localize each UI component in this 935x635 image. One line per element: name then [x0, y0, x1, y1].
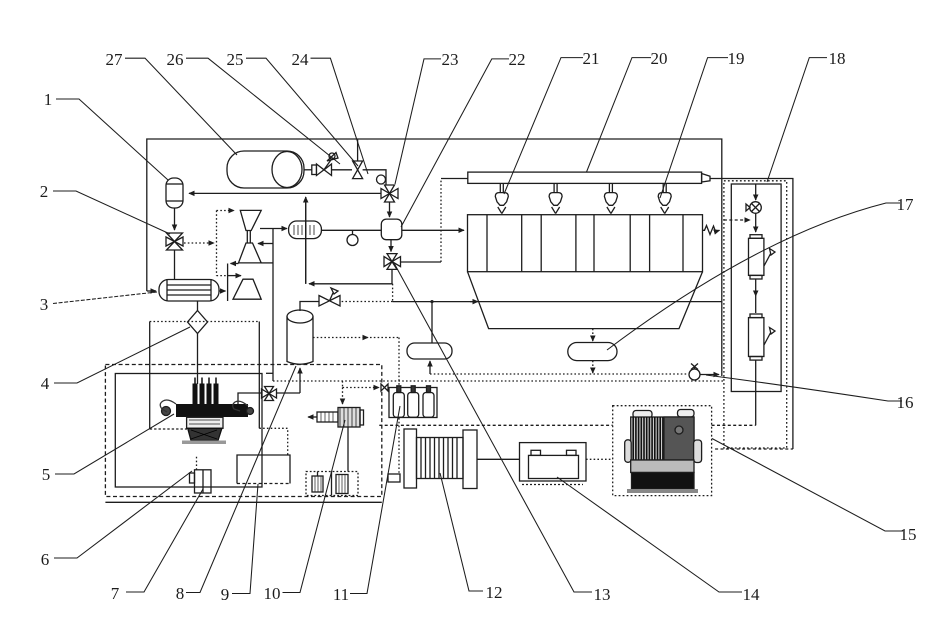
label 8 — [186, 366, 296, 593]
svg-text:27: 27 — [106, 50, 124, 69]
wire: engine jacket line to tank 8 — [234, 411, 239, 413]
svg-text:24: 24 — [292, 50, 310, 69]
lower multiway valve 23b — [384, 254, 401, 270]
multiway valve 23 — [381, 185, 398, 202]
label 12 — [440, 473, 483, 591]
buffer vessel 22 — [381, 219, 402, 240]
label 27 — [125, 58, 237, 155]
waste heat boiler coil — [289, 221, 322, 239]
dotted header D2 y=381 — [273, 380, 724, 382]
engine 5 — [160, 378, 253, 445]
wire: valve 23 down into vessel 22 — [389, 202, 391, 217]
svg-text:18: 18 — [829, 49, 846, 68]
turbine T2 — [239, 243, 262, 263]
label 13 — [394, 263, 592, 592]
wire: valve 23b bottom to condensate header — [391, 269, 393, 283]
label 4 — [54, 327, 190, 383]
engine inner box — [115, 374, 262, 488]
svg-text:13: 13 — [594, 585, 611, 604]
label 9 — [232, 484, 258, 594]
wire: T2 out right, down to engine level — [261, 262, 273, 264]
nozzle 21a — [495, 183, 508, 213]
generator enclosure 15 — [613, 406, 712, 496]
vessel 1 — [166, 178, 183, 208]
hopper under chamber — [468, 272, 703, 329]
wire: tank 8 dotted gas line right then down to bottles — [313, 337, 368, 339]
wire: valve 16 outlet — [700, 374, 719, 376]
svg-text:26: 26 — [167, 50, 184, 69]
wire: condensate header y=283.8 back to WHB riser — [309, 283, 393, 285]
wire: down into fan — [755, 184, 757, 200]
svg-text:1: 1 — [44, 90, 53, 109]
svg-text:6: 6 — [41, 550, 50, 569]
small valve at bottle rack inlet — [381, 384, 388, 391]
svg-text:4: 4 — [41, 374, 50, 393]
label 21 — [504, 58, 583, 194]
label 26 — [186, 58, 340, 164]
wire: radiator to battery — [477, 458, 520, 460]
wire: turbine T2 exhaust to left header — [231, 263, 239, 265]
wire: pipe 20 right end over to generator bus — [710, 179, 793, 450]
wire: gas inlet into chamber — [402, 229, 464, 231]
wire: flue feed arrow into fan column — [724, 219, 750, 221]
wire: hopper to drum 17 dotted — [592, 329, 594, 341]
dotted intake box around diamond 4 — [150, 321, 260, 323]
valve 16 — [689, 364, 700, 381]
wire: drum 17 down to dotted header — [592, 361, 594, 373]
svg-text:3: 3 — [40, 295, 49, 314]
svg-text:14: 14 — [743, 585, 761, 604]
label 3 — [53, 292, 157, 304]
wire: line y=193.4 from valve 23 to vessel 1 — [189, 192, 381, 194]
flue-gas treatment inner box — [731, 184, 781, 392]
svg-text:16: 16 — [897, 393, 914, 412]
svg-text:9: 9 — [221, 585, 230, 604]
svg-text:15: 15 — [900, 525, 917, 544]
wire: valve2 to HX3 — [174, 250, 176, 280]
battery 13 — [520, 443, 587, 485]
injector pump 10 — [308, 408, 364, 472]
dashed generator bus y=449 — [715, 448, 793, 450]
label 7 — [126, 489, 203, 592]
storage tank 26 — [227, 151, 312, 188]
label 14 — [557, 477, 742, 592]
wire: to corner and down to valve 23 — [363, 170, 386, 185]
svg-text:7: 7 — [111, 584, 120, 603]
wire: turbine outlet line to waste heat boiler — [260, 228, 287, 230]
nozzle 21c — [604, 183, 617, 213]
gas bottle rack 11 — [389, 386, 437, 418]
label 1 — [56, 99, 168, 180]
wire: riser through WHB — [305, 197, 307, 284]
wire: fuel dotted from header to injector and bottles — [342, 381, 344, 388]
wire: vessel 22 down to valve 23b — [390, 240, 392, 252]
svg-text:12: 12 — [486, 583, 503, 602]
chamber outlet zigzag to right channel — [703, 226, 720, 235]
generator 14 — [625, 410, 702, 494]
relief valve above tank 8 — [319, 288, 340, 306]
wire: valve 23b right, up, into spray pipe 20 — [401, 261, 442, 263]
label 16 — [706, 375, 902, 401]
engine room solid floor — [105, 501, 381, 503]
control box 9 — [237, 455, 290, 484]
branch valve 24 with stub to box top — [353, 139, 363, 179]
turbine T3 — [233, 279, 261, 299]
induced draft fan — [746, 202, 761, 214]
outer enclosure box — [147, 139, 722, 376]
flue-gas treatment outer dotted box 18 — [724, 181, 787, 448]
svg-text:25: 25 — [227, 50, 244, 69]
small drum (left, above bottles) — [407, 343, 452, 359]
wire: valve2 dotted branch to turbine T1 inlet — [184, 242, 214, 244]
wire: header into turbine T3 — [228, 275, 241, 277]
svg-text:11: 11 — [333, 585, 349, 604]
label 22 — [401, 59, 509, 227]
label 18 — [767, 58, 827, 182]
filter column 16a — [749, 314, 776, 360]
label 24 — [311, 58, 369, 174]
label 20 — [587, 58, 652, 172]
filter column 17a — [749, 235, 776, 279]
diamond separator 4 — [197, 301, 199, 311]
wire: junction dotted down then left to relief valve — [392, 284, 394, 302]
wire: valve25 to branch valve 24 — [332, 169, 353, 171]
svg-text:22: 22 — [509, 50, 526, 69]
jacket line valve — [262, 387, 277, 401]
svg-text:10: 10 — [264, 584, 281, 603]
label 15 — [712, 439, 903, 532]
wire: slurry line across hopper — [393, 301, 722, 303]
instrument circle on valve 23 inlet — [377, 175, 386, 184]
wire: drum bottom from dotted header, arrow up — [429, 361, 431, 374]
dashed return line y=425.3 — [379, 424, 612, 426]
spray pipe 20 — [468, 172, 710, 183]
wire: tank 8 top to relief valve — [300, 302, 319, 312]
shaft T1-T2 — [247, 231, 250, 244]
small fitting under rack — [388, 474, 400, 482]
nozzle 21b — [549, 183, 562, 213]
wire: vessel1 down to valve 2 — [174, 208, 176, 230]
svg-text:2: 2 — [40, 182, 49, 201]
valve 2 — [166, 233, 183, 250]
wire: filter1 to filter2 — [755, 279, 757, 296]
scrubber chamber box — [468, 215, 703, 272]
engine room dashed enclosure — [105, 365, 381, 497]
svg-text:23: 23 — [442, 50, 459, 69]
water tank 8 (vertical cylinder) — [287, 310, 313, 364]
wire: branch down into drum — [431, 302, 433, 343]
valve 25 with actuator — [312, 153, 338, 176]
svg-text:19: 19 — [728, 49, 745, 68]
label 10 — [283, 420, 346, 593]
dotted header D1 y=374 — [430, 373, 687, 375]
pump skid box — [306, 472, 358, 496]
svg-text:5: 5 — [42, 465, 51, 484]
svg-text:8: 8 — [176, 584, 185, 603]
label 11 — [350, 406, 400, 594]
nozzle 21d (19) — [658, 183, 671, 213]
wire: fan to filter 1 — [755, 213, 757, 232]
canister 6 and filter box 7 — [190, 456, 212, 493]
svg-text:20: 20 — [651, 49, 668, 68]
label 17 — [607, 203, 900, 350]
drum 17 under hopper — [568, 343, 617, 361]
turbine T1 — [240, 210, 261, 230]
radiator 12 — [404, 429, 477, 489]
label 25 — [246, 58, 358, 166]
wire: battery to generator box dotted — [586, 458, 613, 460]
wire: filter2 down and out left — [755, 360, 757, 425]
label 19 — [660, 58, 728, 198]
svg-text:21: 21 — [583, 49, 600, 68]
wire: steam riser arrow up into line — [305, 197, 307, 284]
wire: feed into heat exchanger 3 from left edge — [147, 290, 156, 292]
drain pot circle under gas line — [347, 230, 358, 245]
svg-text:17: 17 — [897, 195, 915, 214]
wire: WHB to vessel 22 (gas line) — [321, 229, 381, 231]
label 5 — [55, 414, 174, 474]
heat exchanger 3 — [159, 280, 219, 302]
label 23 — [395, 59, 441, 184]
label 2 — [53, 191, 170, 234]
wire: HX3 outlet right — [219, 290, 226, 292]
label 6 — [54, 471, 192, 558]
wire: diamond 4 down into engine — [197, 334, 199, 385]
